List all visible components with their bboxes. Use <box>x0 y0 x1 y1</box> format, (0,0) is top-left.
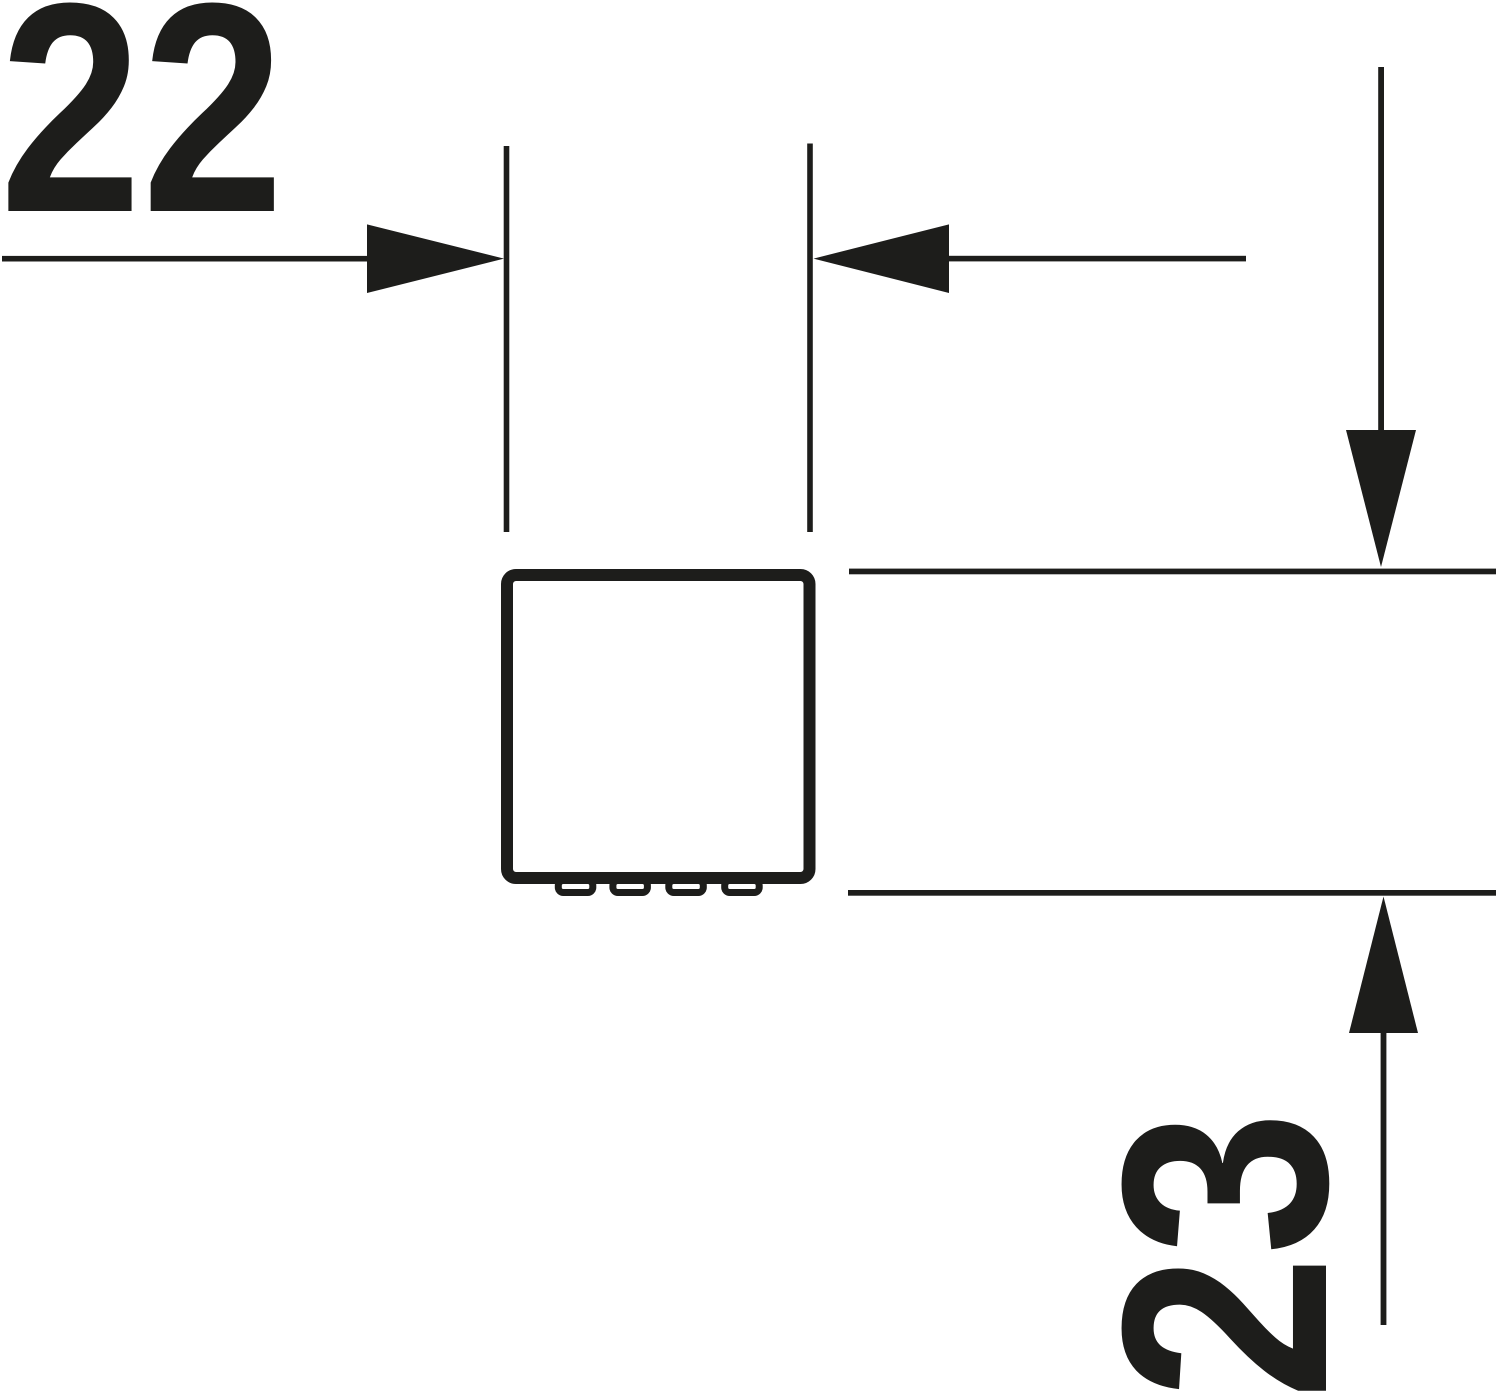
arrowhead down-pointing of 23 dimension <box>1346 430 1416 567</box>
product body square profile <box>507 575 810 878</box>
reference line bottom (product bottom level) <box>848 890 1496 896</box>
mounting tab 4 <box>725 881 760 893</box>
vertical dimension line lower of 23 <box>1381 1030 1387 1325</box>
reference line top (product top level) <box>849 569 1496 575</box>
arrowhead left-pointing of 22 dimension <box>814 224 950 293</box>
dimension line left segment of 22 <box>2 256 375 262</box>
svg-text:22: 22 <box>0 0 284 274</box>
arrowhead up-pointing of 23 dimension <box>1349 897 1418 1034</box>
extension line right (at product right face) <box>807 144 813 533</box>
extension line left (at product left face) <box>504 146 510 532</box>
vertical dimension line upper of 23 <box>1378 67 1384 435</box>
mounting tab 3 <box>669 881 704 893</box>
mounting tab 2 <box>613 881 648 893</box>
mounting tab 1 <box>558 881 593 893</box>
dimension line right segment of 22 <box>946 256 1246 262</box>
svg-text:23: 23 <box>1060 1111 1388 1394</box>
arrowhead right-pointing of 22 dimension <box>367 224 504 293</box>
